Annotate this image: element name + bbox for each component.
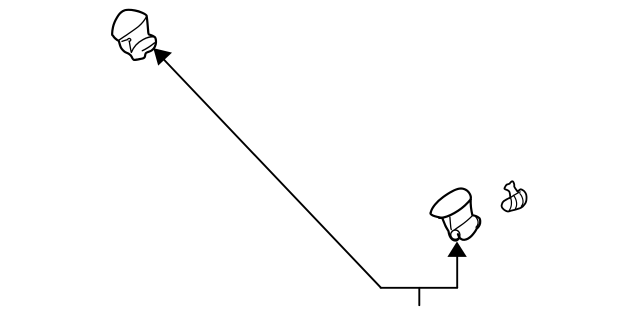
- grommet P1 inner sweep curve: [118, 17, 146, 41]
- arrow shaft to clip part: [456, 252, 458, 288]
- bracket horizontal line: [381, 287, 458, 289]
- clip part P2 wing inner arc: [475, 216, 478, 227]
- small clip P3 rib 1: [514, 195, 517, 208]
- bracket tick mark: [418, 288, 420, 305]
- clip part P2 stem left edge and pin lobe: [442, 218, 459, 241]
- clip part P2 cap top ellipse with flange: [430, 189, 470, 218]
- clip part P2 pin circle: [451, 230, 460, 239]
- grommet P1 inner hook mark: [122, 38, 131, 52]
- small clip P3 cylinder top edge: [511, 192, 521, 198]
- leader arrow line to grommet: [160, 56, 381, 288]
- arrowhead to clip part: [447, 242, 466, 257]
- grommet part P1 outer outline (top left): [112, 10, 156, 60]
- clip part P2 neck inner diagonal: [454, 216, 472, 230]
- clip part P2 stem inner right line: [450, 217, 451, 229]
- small ribbed clip P3 outer outline (far right): [502, 181, 527, 211]
- grommet P1 mouth crescent: [131, 37, 154, 53]
- small clip P3 rib 2: [520, 194, 523, 207]
- small clip P3 end cap inner arc: [509, 198, 511, 211]
- clip part P2 right wall, wing and boot silhouette: [458, 199, 480, 240]
- leader arrowhead at grommet: [153, 48, 172, 66]
